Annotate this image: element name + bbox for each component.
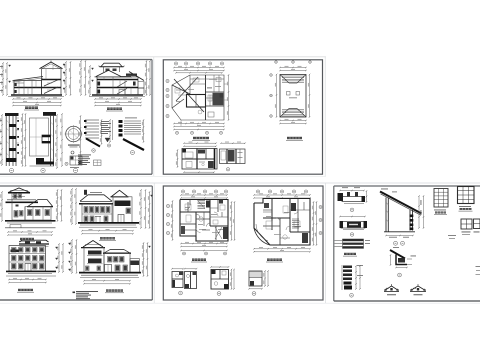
elevation 3 windows — [84, 207, 110, 222]
S5 detail D1 — [338, 187, 368, 203]
S4 small plan A bubble — [179, 291, 183, 295]
elevation 3 roofs — [79, 190, 129, 204]
notes text block S3 — [73, 291, 99, 299]
S4 plan1 dark blobs — [181, 200, 228, 240]
sheet edge faint line below bottom sheets — [0, 302, 480, 304]
elevation 4 label — [105, 289, 124, 292]
S5 gutter detail bubble — [398, 273, 402, 277]
S4 small plan C — [210, 266, 235, 290]
circle detail bubble — [65, 162, 78, 173]
S2 big plan right dims — [227, 74, 229, 121]
S5 window detail W3 — [461, 219, 472, 235]
elevation 1 right dim stack — [56, 189, 62, 222]
S5 small marks under schedules — [448, 235, 456, 239]
S4 plan2 curved terrace — [254, 224, 270, 245]
S2 big plan top dims — [173, 66, 225, 71]
circle detail — [65, 125, 83, 143]
S4 plan1 door arcs — [196, 214, 210, 227]
section 1-1 ground line — [8, 95, 64, 96]
sheet edge faint line bottom band — [0, 182, 480, 184]
S2 lower plan bubble — [226, 168, 229, 171]
section 2-2 right dim stack — [145, 60, 151, 96]
S4 plan1 furniture — [185, 204, 225, 239]
S5 detail D2 bubble — [350, 233, 354, 237]
wall detail A — [5, 113, 19, 166]
S4 plan2 extra walls — [263, 202, 310, 238]
wall detail B bubble — [41, 168, 45, 172]
elevation 2 roof parapet — [11, 240, 50, 252]
elevation 3 right dim stack — [139, 189, 152, 229]
S4 plan2 body outline — [254, 199, 310, 246]
elevation 1 label — [19, 238, 35, 241]
S5 detail D4 — [342, 265, 363, 290]
S2 big plan label — [192, 137, 210, 141]
S5 schedule grid 1 label — [434, 212, 447, 215]
elevation 1 bottom dims — [7, 230, 53, 235]
section 1-1 interior walls — [15, 65, 54, 96]
S5 gutter detail — [390, 247, 416, 268]
section 2-2 body — [97, 77, 138, 95]
S4 lower small detail bubble — [252, 292, 256, 296]
S5 canopy section — [380, 189, 422, 238]
S4 plan2 stair — [292, 219, 299, 228]
S2 lower plan — [182, 149, 217, 170]
section 1-1 floor slabs — [14, 80, 61, 88]
elevation 1 left dim stack — [0, 191, 2, 222]
sheet S1 frame (clipped left) — [0, 60, 152, 175]
section 2-2 dims below — [94, 97, 142, 106]
elevation 2 right dim stack — [56, 243, 64, 273]
S5 detail D4 bubble — [350, 293, 354, 297]
S4 plan2 internal walls — [263, 199, 310, 246]
dim strip right of circle — [79, 115, 81, 165]
stair detail 3 — [119, 118, 145, 151]
elevation 1 windows — [14, 194, 50, 217]
S2 roof plan hatch top — [282, 76, 304, 83]
S5 ornament A label — [387, 294, 396, 296]
elevation 2 door — [25, 264, 31, 272]
elevation 3 bottom dims — [81, 229, 134, 234]
S2 big plan bottom dims — [173, 122, 225, 130]
elevation 3 ground — [78, 223, 139, 227]
notes text block S1 — [78, 155, 101, 166]
stair detail 2 bubble — [107, 144, 110, 147]
S5 detail D2 — [339, 216, 367, 230]
S4 small plan C bubble — [217, 292, 221, 296]
S4 plan1 extra walls — [182, 202, 223, 240]
S4 small plan B — [184, 268, 198, 289]
elevation 4 ground — [79, 273, 141, 278]
S2 big plan axis bubbles top — [174, 62, 223, 65]
elevation 1 body — [12, 192, 51, 220]
section 2-2 windows — [98, 82, 136, 94]
stair detail 1 — [84, 119, 102, 146]
S2 big plan furniture marks — [175, 78, 217, 114]
inter-elevation dim stack lower — [69, 239, 78, 274]
section 2-2 right annex — [129, 72, 144, 96]
inter-elevation dim stack upper — [70, 188, 76, 225]
dimension strip between wall details — [21, 113, 26, 167]
elevation 2 windows — [12, 248, 45, 270]
S2 roof plan body — [280, 75, 306, 118]
S2 roof plan middle marks — [287, 92, 300, 99]
S5 ornament B — [410, 284, 426, 292]
stair detail 3 bubble — [131, 151, 135, 155]
S2 lower plan right annex — [220, 149, 246, 164]
elevation 3 body — [82, 197, 132, 223]
S2 big plan extra lines — [176, 75, 228, 126]
sheet S5 frame (clipped right) — [334, 186, 480, 301]
elevation 4 right dim stack — [142, 242, 151, 277]
S2 big plan inner rooms — [187, 75, 225, 120]
elevation 1 ground — [5, 221, 56, 228]
S5 ornament A — [384, 284, 399, 292]
sheet edge faint line top band — [0, 56, 326, 58]
circle detail small circle — [71, 151, 74, 154]
S4 plan1 bottom dims — [180, 242, 228, 251]
S4 small plan A — [171, 268, 184, 288]
section 1-1 left dim stack — [0, 62, 11, 96]
S4 plan1 left bubbles — [166, 204, 169, 234]
section 1-1 right dim stack — [63, 61, 71, 96]
wall detail A left dims — [0, 114, 3, 166]
S4 plan1 axis bubbles top — [181, 190, 227, 193]
S4 plan1 label — [191, 259, 207, 263]
section 1-1 building outline — [13, 61, 63, 96]
S5 canopy bubbles — [394, 241, 405, 245]
S4 plan1 internal walls — [180, 200, 228, 237]
S5 window detail W4 — [474, 219, 480, 232]
S2 big plan hip diagonals — [172, 75, 204, 112]
S5 detail D3 label — [343, 253, 357, 256]
circle detail lower sketches — [70, 156, 82, 168]
S5 detail D3 leader lines — [335, 241, 343, 247]
S5 schedule grid 1 — [434, 189, 448, 211]
S5 detail D1 bubble — [350, 208, 354, 212]
section 2-2 hatched parapet — [126, 74, 137, 76]
elevation 2 ground — [6, 271, 56, 276]
S2 lower plan dims — [176, 142, 246, 173]
S4 plan2 bottom dims — [253, 247, 311, 252]
sheet edge faint line below top sheets — [0, 175, 326, 177]
sheet S4 frame — [163, 186, 323, 300]
S5 canopy right dims — [418, 195, 424, 229]
S4 lower small detail — [248, 270, 269, 289]
elevation 1 roofs — [6, 188, 54, 207]
S2 roof plan corner bubbles — [270, 61, 312, 118]
sheet edge faint vertical right of S1 — [153, 57, 155, 176]
sheet edge faint vertical right of S4 — [325, 183, 327, 303]
wall detail B right dims — [55, 113, 62, 169]
elevation 4 tower — [81, 241, 105, 273]
S4 plan2 top dims — [253, 193, 311, 198]
elevation 3 porch — [95, 216, 101, 223]
section 2-2 pagoda roof — [95, 63, 133, 77]
S4 plan1 top dims — [180, 193, 228, 198]
S2 roof plan bottom dims — [279, 119, 307, 124]
S2 big plan axis bubbles left — [166, 79, 169, 117]
S5 ornament B label — [414, 294, 423, 296]
S5 right edge marks — [476, 266, 480, 275]
S2 big plan body outline — [172, 75, 224, 120]
wall detail A bubble — [9, 168, 13, 172]
S4 plan1 bottom bubbles — [183, 252, 227, 255]
sheet S2 frame — [163, 60, 322, 174]
circle detail label — [68, 145, 79, 148]
section 2-2 ground line — [89, 95, 145, 96]
section 1-1 interior stair — [44, 80, 58, 94]
stair detail 2 — [101, 119, 113, 143]
S4 plan1 right dims — [230, 201, 235, 241]
S4 plan1 stair — [198, 201, 206, 209]
S5 detail D3 — [343, 239, 371, 248]
section 1-1 label — [24, 107, 39, 111]
section 2-2 left dim stack — [79, 60, 93, 96]
S4 plan2 label — [266, 259, 283, 263]
elevation 3 label — [99, 237, 116, 240]
section 2-2 interior stair — [117, 81, 127, 95]
S2 big plan above-plan dims — [175, 72, 223, 74]
S2 roof plan top dims — [279, 66, 307, 71]
S5 schedule grid 2 — [458, 187, 475, 207]
S2 roof plan label — [286, 137, 303, 141]
S4 plan1 left dims — [171, 200, 173, 241]
elevation 2 body — [9, 246, 46, 272]
S5 schedule grid 2 label — [459, 208, 473, 211]
S4 plan1 body outline — [180, 200, 228, 242]
stair detail 1 bubble — [92, 149, 96, 153]
sheet edge faint vertical right of S2 — [324, 57, 326, 176]
S2 roof plan hatch bottom — [282, 110, 304, 117]
elevation 2 label — [17, 289, 34, 292]
wall detail B — [30, 112, 57, 166]
S4 plan2 right dims — [312, 201, 317, 246]
section 1-1 dims below — [12, 97, 62, 106]
elevation 4 bottom dims — [83, 279, 131, 284]
elevation 2 bottom dims — [8, 278, 47, 283]
S4 plan2 right bubbles — [319, 206, 322, 235]
S2 big plan bottom bubbles — [176, 131, 223, 134]
sheet S3 frame (clipped left) — [0, 186, 152, 300]
S2 roof plan side dims — [275, 74, 310, 118]
S4 plan2 furniture — [266, 206, 300, 239]
S4 plan2 axis bubbles top — [256, 190, 307, 193]
S4 plan2 dark blobs — [264, 203, 308, 243]
section 2-2 label — [106, 108, 123, 112]
elevation 4 main body — [103, 250, 140, 273]
sheet edge faint vertical right of S3 — [153, 183, 155, 303]
